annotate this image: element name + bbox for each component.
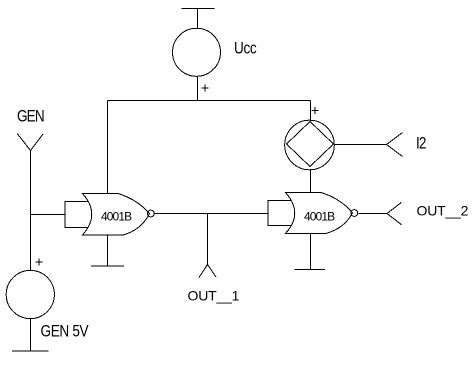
wire U2 output to connector <box>358 213 387 215</box>
connector pin GEN (input terminal) <box>17 134 43 151</box>
ground GND4 (below U2) <box>295 269 326 271</box>
wire GEN 5V bottom to ground <box>30 319 32 352</box>
voltage source V1 Ucc <box>173 28 221 76</box>
wire U2 bottom pin to ground <box>310 233 312 269</box>
wire OUT_1 branch down <box>207 214 209 265</box>
svg-text:GEN: GEN <box>17 107 44 126</box>
wire U1 bottom pin to ground <box>107 235 109 266</box>
wire GEN vertical <box>30 151 32 272</box>
wire GEN node to U1 input <box>31 214 66 216</box>
wire Ucc bottom to Vcc rail <box>197 76 199 100</box>
current source I2 (circle with diamond) <box>285 120 335 170</box>
wire U1 output to U2 input <box>155 213 268 215</box>
nor gate U1 4001B input box <box>65 202 89 228</box>
nor gate U2 4001B body <box>286 193 353 234</box>
wire rail right drop to I2 top <box>310 101 312 122</box>
connector pin I2 <box>387 133 403 157</box>
label Ucc <box>234 39 257 58</box>
svg-text:4001B: 4001B <box>101 210 132 224</box>
voltage source V2 GEN 5V <box>6 270 54 318</box>
label GEN <box>17 107 44 126</box>
connector pin OUT_1 <box>199 265 216 278</box>
label GEN 5V <box>41 322 90 341</box>
svg-text:Ucc: Ucc <box>234 39 257 58</box>
wire I2 bottom to U2 power pin <box>310 170 312 194</box>
connector pin OUT_2 <box>387 202 402 224</box>
wire rail left drop to U1 power pin <box>107 101 109 195</box>
svg-text:GEN 5V: GEN 5V <box>41 322 90 341</box>
wire Vcc rail (horizontal) <box>108 100 311 102</box>
ground GND3 (below U1) <box>91 265 124 267</box>
nor gate U1 output bubble <box>148 210 155 217</box>
svg-text:I2: I2 <box>416 134 426 153</box>
plus polarity mark of I2 <box>312 107 319 114</box>
nor gate U2 4001B input box <box>268 201 292 226</box>
ground GND2 (below GEN 5V) <box>12 350 49 352</box>
svg-text:OUT__2: OUT__2 <box>417 203 469 219</box>
label I2 <box>416 134 426 153</box>
plus polarity mark of V1 <box>202 85 209 92</box>
nor gate U1 4001B body <box>83 194 150 236</box>
ground GND1 (top, Ucc minus terminal) <box>182 9 215 29</box>
svg-text:OUT__1: OUT__1 <box>188 288 240 304</box>
nor gate U2 output bubble <box>351 210 358 217</box>
wire I2 right to connector <box>334 144 387 146</box>
plus polarity mark of GEN 5V <box>36 259 43 266</box>
svg-text:4001B: 4001B <box>304 210 335 224</box>
